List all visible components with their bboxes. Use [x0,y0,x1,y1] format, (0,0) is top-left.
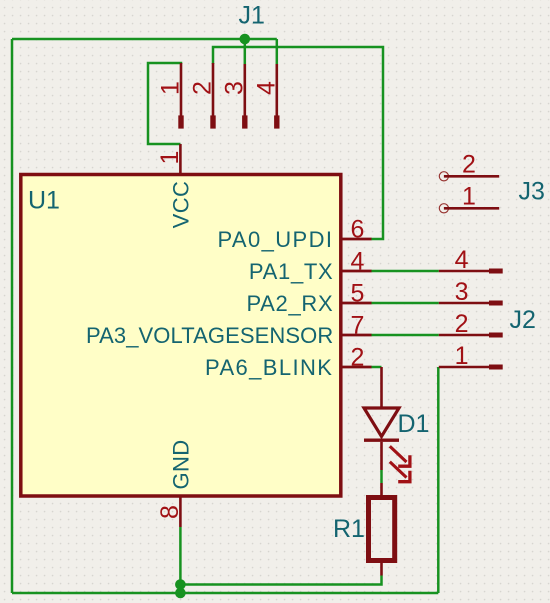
svg-text:2: 2 [189,81,217,95]
D1 emission arrow 2 [390,462,410,482]
svg-text:1: 1 [157,81,185,95]
svg-text:VCC: VCC [168,181,193,229]
U1 pin 7 PA3_VOLTAGESENSOR [86,312,372,348]
svg-text:J3: J3 [519,178,545,206]
svg-text:1: 1 [462,183,476,211]
R1 top pin [380,483,383,496]
U1 pin 4 PA1_TX [249,248,372,284]
J3 pin 2 [439,151,499,181]
resistor R1 [333,483,395,576]
svg-text:2: 2 [462,151,476,179]
wire: J1 pin 1 to U1 VCC pin 1 [148,63,181,144]
wire: junction to J1 pin 3 [244,39,247,64]
IC U1 [21,144,372,527]
wire: drop to J1 pin 4 [276,39,279,64]
svg-text:3: 3 [455,278,469,306]
J2 pin 4 [439,246,503,274]
svg-text:U1: U1 [28,187,60,215]
junction: GND wire / bottom bus [175,588,186,599]
svg-text:PA0_UPDI: PA0_UPDI [217,227,333,252]
svg-text:J1: J1 [239,2,265,30]
svg-text:5: 5 [351,280,365,308]
U1 pin 6 PA0_UPDI [217,216,371,252]
svg-text:PA1_TX: PA1_TX [249,259,334,284]
J1 pin 4 [252,64,280,129]
J1 pin 1 [157,63,185,129]
wire: R1 bottom to GND junction [180,576,381,585]
J1 pin 3 [220,64,248,129]
wire: PA3_VOLTAGESENSOR row to J2 pin 2 [371,334,439,337]
U1 pin 1 VCC [156,144,193,228]
junction: GND wire / R1 branch [175,579,186,590]
U1 pin 5 PA2_RX [246,280,371,316]
D1 triangle [364,408,399,437]
wire: vertical riser to J2 pin 1 [437,367,440,593]
wire: top horizontal bus from left loop to J1 pin4 [12,38,277,41]
R1 bottom pin [380,562,383,576]
wire: J1 pin 2 to U1 PA0_UPDI pin 6 [213,47,383,239]
svg-text:3: 3 [220,81,248,95]
svg-text:R1: R1 [333,515,365,543]
svg-text:2: 2 [351,344,365,372]
svg-text:PA3_VOLTAGESENSOR: PA3_VOLTAGESENSOR [86,323,333,348]
wire: PA6_BLINK stub to D1 anode [371,366,382,369]
svg-text:1: 1 [455,342,469,370]
junction: top bus / J1 pin 3 [240,34,251,45]
svg-text:D1: D1 [398,410,430,438]
wire: PA1_TX row to J2 pin 4 [371,270,439,273]
svg-text:GND: GND [168,439,193,489]
U1 body [21,175,341,497]
svg-text:4: 4 [351,248,365,276]
U1 pin 8 GND [156,439,193,527]
wire: PA2_RX row to J2 pin 3 [371,302,439,305]
connector J3 [439,151,545,213]
J3 pin 1 [439,183,499,213]
J1 pin 2 [189,63,217,129]
svg-text:4: 4 [455,246,469,274]
svg-text:4: 4 [252,81,280,95]
svg-text:PA2_RX: PA2_RX [246,291,333,316]
wire: D1 cathode to R1 top [380,470,383,483]
LED D1 [364,367,429,482]
svg-text:8: 8 [156,505,184,519]
svg-text:1: 1 [156,151,184,165]
connector J2 [439,246,536,370]
svg-text:7: 7 [351,312,365,340]
R1 body [369,498,395,561]
D1 cathode pin [380,442,383,470]
svg-text:PA6_BLINK: PA6_BLINK [205,355,333,380]
D1 cathode bar [364,439,399,442]
D1 emission arrow 1 [390,446,410,466]
J2 pin 2 [439,310,503,338]
U1 pin 2 PA6_BLINK [205,344,371,380]
svg-text:6: 6 [351,216,365,244]
svg-text:J2: J2 [510,306,536,334]
wire: U1 GND pin down to bottom bus [179,527,182,593]
wire: left vertical GND loop [11,39,14,593]
D1 anode pin [380,367,383,408]
wire: bottom horizontal GND bus [12,592,438,595]
J2 pin 1 [439,342,503,370]
J2 pin 3 [439,278,503,306]
svg-text:2: 2 [455,310,469,338]
connector J1 [157,2,281,129]
